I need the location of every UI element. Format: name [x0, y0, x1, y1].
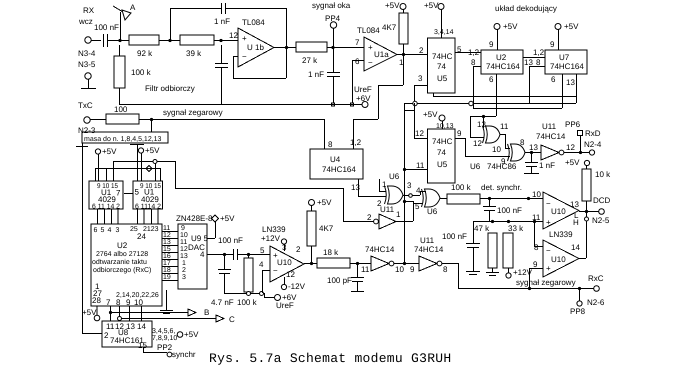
svg-text:18 k: 18 k — [323, 248, 339, 257]
svg-text:U10: U10 — [277, 258, 292, 267]
svg-text:RxD: RxD — [585, 129, 601, 138]
capacitor 100 nF between inputs — [483, 199, 522, 221]
wire RX to C1 — [91, 40, 101, 42]
svg-text:3: 3 — [116, 227, 120, 234]
svg-text:3: 3 — [407, 181, 412, 190]
power +5V to U5 pins 10,13 — [423, 110, 454, 130]
wire EPROM outputs to DAC — [162, 225, 178, 281]
wire U5 pin5 to U2 — [455, 45, 481, 54]
svg-text:−: − — [242, 52, 247, 61]
wire feedback net y97 — [433, 93, 576, 97]
svg-text:12: 12 — [180, 246, 188, 253]
inverter U11a pins 2,1 — [367, 205, 401, 229]
svg-text:U1a: U1a — [374, 50, 389, 59]
xor gate U6c pins 13,12 out 11 — [473, 120, 509, 148]
svg-text:10: 10 — [532, 190, 541, 199]
svg-text:5: 5 — [260, 246, 265, 255]
svg-text:12: 12 — [163, 232, 171, 239]
svg-text:U2: U2 — [496, 53, 507, 62]
capacitor 100 nF input — [94, 23, 119, 47]
svg-text:sygnał oka: sygnał oka — [312, 1, 351, 10]
svg-text:100 k: 100 k — [237, 298, 258, 307]
wire bias rail to Uref — [224, 292, 274, 298]
svg-text:11: 11 — [106, 322, 115, 331]
resistor 4K7 pullup U1a — [382, 1, 408, 54]
svg-text:U6: U6 — [389, 172, 400, 181]
svg-text:4: 4 — [108, 227, 112, 234]
op-amp U1b TL084 — [229, 18, 274, 67]
wire node C arrow — [118, 315, 236, 324]
svg-text:H: H — [573, 218, 579, 227]
svg-text:100 nF: 100 nF — [218, 236, 243, 245]
svg-text:+5V: +5V — [503, 22, 518, 31]
svg-text:74HC164: 74HC164 — [486, 62, 520, 71]
svg-text:odtwarzanie taktu: odtwarzanie taktu — [92, 258, 147, 266]
svg-text:6 11 14 2: 6 11 14 2 — [92, 204, 120, 211]
resistor 33 k — [503, 224, 533, 278]
svg-text:+5V: +5V — [564, 22, 579, 31]
resistor 92 k — [129, 35, 159, 58]
svg-text:PP8: PP8 — [570, 307, 586, 316]
test point PP2 synchr — [143, 343, 196, 359]
svg-text:12: 12 — [415, 129, 424, 138]
wire C1 to R 92k — [108, 39, 129, 42]
svg-text:13: 13 — [566, 78, 575, 87]
svg-text:U9 5: U9 5 — [191, 234, 208, 243]
svg-text:1,2: 1,2 — [468, 48, 480, 57]
svg-text:Filtr odbiorczy: Filtr odbiorczy — [145, 84, 195, 93]
wire feedback loop U1b — [170, 8, 288, 79]
xor gate U6b pins 4,5 out 6 — [415, 186, 440, 216]
inverter U11c pins 9,8 — [410, 236, 448, 274]
resistor 39 k — [180, 35, 214, 58]
svg-text:N2-5: N2-5 — [592, 216, 610, 225]
wire wired-or to U10c output — [579, 212, 589, 259]
wire EPROM low outputs to U8 — [111, 306, 142, 321]
svg-text:18: 18 — [163, 267, 171, 274]
svg-text:47 k: 47 k — [474, 224, 490, 233]
svg-text:13: 13 — [477, 120, 486, 129]
svg-text:7,8,9,10: 7,8,9,10 — [152, 335, 177, 342]
svg-text:6: 6 — [355, 57, 360, 66]
wire recovered clock vertical net — [403, 103, 406, 265]
svg-text:−: − — [546, 246, 551, 255]
wire node B arrow — [109, 308, 209, 317]
svg-text:7: 7 — [106, 298, 111, 307]
svg-text:7: 7 — [116, 189, 121, 198]
ground stub counter U3 right — [130, 145, 144, 182]
svg-text:92 k: 92 k — [137, 49, 153, 58]
wire to xor U6c pin 12 — [470, 115, 496, 138]
svg-text:N2-3: N2-3 — [78, 126, 96, 135]
test point PP4 sygnal oka — [312, 1, 351, 47]
svg-text:3,4,5,6,: 3,4,5,6, — [152, 328, 175, 335]
svg-text:U4: U4 — [330, 155, 341, 164]
svg-text:1 nF: 1 nF — [214, 17, 230, 26]
capacitor 4.7 nF — [211, 255, 234, 307]
capacitor 100 nF to ground — [442, 221, 480, 275]
comparator U10c LM339 clock — [533, 240, 580, 277]
svg-text:sygnał zegarowy: sygnał zegarowy — [516, 278, 576, 287]
pin 8 U7 clock — [529, 58, 545, 103]
svg-text:+: + — [546, 264, 551, 273]
svg-text:74HC: 74HC — [432, 137, 453, 146]
svg-text:74HC14: 74HC14 — [365, 245, 395, 254]
capacitor 1 nF at PP4 node — [308, 48, 340, 103]
svg-text:11: 11 — [416, 161, 425, 170]
svg-text:4.7 nF: 4.7 nF — [211, 298, 234, 307]
svg-text:PP6: PP6 — [565, 120, 581, 129]
svg-text:100 k: 100 k — [131, 68, 152, 77]
svg-text:1: 1 — [382, 180, 387, 189]
svg-text:-12V: -12V — [288, 282, 306, 291]
svg-text:6 1114 2: 6 1114 2 — [135, 204, 161, 211]
svg-text:2: 2 — [419, 46, 424, 55]
svg-text:1 nF: 1 nF — [539, 161, 555, 170]
test point PP6 RxD — [565, 120, 602, 152]
wire 100k to U10b minus — [480, 190, 543, 200]
resistor 100 k bias — [237, 255, 258, 307]
svg-text:U10: U10 — [551, 207, 566, 216]
svg-text:wcz: wcz — [78, 17, 93, 26]
power +5V to U5 pins 3,4,14 — [424, 1, 454, 38]
wire 18k to inverter U11b — [350, 262, 371, 265]
svg-text:9: 9 — [501, 157, 506, 166]
svg-text:N2-6: N2-6 — [587, 298, 605, 307]
svg-text:+5V: +5V — [424, 1, 439, 10]
wire U10c minus input — [534, 221, 543, 247]
svg-text:13: 13 — [529, 143, 538, 152]
svg-text:8: 8 — [328, 140, 333, 149]
comparator U10a LM339 — [259, 225, 304, 282]
svg-text:U 1b: U 1b — [247, 43, 264, 52]
svg-text:8: 8 — [471, 58, 476, 67]
svg-text:UreF: UreF — [276, 301, 294, 310]
svg-text:U2: U2 — [117, 241, 128, 250]
svg-text:UreF: UreF — [354, 85, 372, 94]
ground rail of filter to Uref — [119, 103, 362, 106]
svg-text:9: 9 — [457, 129, 462, 138]
svg-text:U11: U11 — [380, 205, 395, 214]
svg-text:+6V: +6V — [356, 94, 371, 103]
node RX wcz input — [78, 6, 95, 43]
svg-text:1: 1 — [182, 260, 186, 267]
svg-text:3,4,14: 3,4,14 — [434, 29, 454, 36]
svg-text:TL084: TL084 — [242, 18, 265, 27]
probe point A — [113, 3, 136, 40]
svg-text:masa do n. 1,8,4,5,12,13: masa do n. 1,8,4,5,12,13 — [84, 135, 162, 143]
svg-text:10: 10 — [180, 232, 188, 239]
svg-text:+5V: +5V — [184, 330, 199, 339]
wire U11b to U11c — [394, 263, 419, 265]
wire U1 pin7 to U3 pin5 — [124, 193, 133, 195]
shift register U7 74HC164 — [545, 50, 587, 74]
svg-text:det. synchr.: det. synchr. — [481, 183, 522, 192]
svg-text:4K7: 4K7 — [382, 23, 397, 32]
wire U5 pin11 clock — [404, 161, 427, 170]
capacitor 100 pF — [327, 264, 364, 292]
svg-text:2: 2 — [104, 331, 109, 340]
svg-text:74HC164: 74HC164 — [550, 62, 584, 71]
wire to xor U6c pin 13 — [483, 116, 485, 128]
resistor 18 k — [317, 248, 350, 268]
svg-text:12: 12 — [566, 143, 575, 152]
svg-text:12: 12 — [229, 31, 238, 40]
svg-text:10: 10 — [492, 145, 501, 154]
wire counters to EPROM address pins — [98, 209, 159, 224]
power +5V to U8 pins 3,4,5,6,7,8,9,10 — [152, 328, 199, 342]
wire U5 pin9 to U6d pin 9 — [455, 129, 510, 157]
svg-text:Rys. 5.7a Schemat modemu G3RUH: Rys. 5.7a Schemat modemu G3RUH — [209, 351, 451, 366]
svg-text:13: 13 — [180, 253, 188, 260]
power +5V near U8 — [82, 306, 100, 321]
svg-text:6: 6 — [551, 75, 556, 84]
inverter U11b pins 11,10 — [361, 245, 404, 274]
svg-text:+12V: +12V — [261, 234, 281, 243]
svg-text:9: 9 — [181, 225, 185, 232]
svg-text:odbiorczego (RxC): odbiorczego (RxC) — [93, 266, 151, 274]
svg-text:14: 14 — [571, 243, 580, 252]
svg-text:8: 8 — [536, 58, 541, 67]
svg-text:100: 100 — [114, 105, 128, 114]
svg-text:33 k: 33 k — [508, 224, 524, 233]
svg-text:74: 74 — [437, 148, 446, 157]
wire U10a minus to bias — [263, 270, 271, 293]
svg-text:74HC164: 74HC164 — [322, 165, 356, 174]
wire U6a out to U6b pin4 — [403, 191, 426, 197]
wire U10b output to N2-5 DCD — [573, 196, 611, 227]
resistor 4K7 pullup comparator — [307, 198, 334, 263]
resistor 100 on TxC — [90, 105, 139, 124]
svg-text:13: 13 — [524, 58, 533, 67]
wire threshold net plus input — [473, 213, 543, 223]
svg-text:9: 9 — [410, 265, 415, 274]
capacitor 1 nF feedback U1b — [214, 3, 230, 26]
svg-text:1,2: 1,2 — [533, 48, 545, 57]
svg-text:+5V: +5V — [385, 1, 400, 10]
pin 6 U2 — [489, 74, 497, 116]
wire U6b out to 100k — [440, 198, 447, 200]
svg-text:7: 7 — [355, 38, 360, 47]
wire counter net to long line x175 — [175, 161, 177, 188]
connector Uref +6V — [275, 293, 298, 310]
svg-text:15: 15 — [163, 246, 171, 253]
svg-text:N2-4: N2-4 — [584, 140, 602, 149]
svg-text:+5V: +5V — [565, 158, 580, 167]
svg-text:8: 8 — [116, 298, 121, 307]
svg-text:5: 5 — [135, 188, 140, 197]
ground masa line to U8 pin 2 — [76, 143, 102, 334]
power +5V to U7 pin 9 — [550, 22, 579, 50]
wire 27k to U1a — [327, 46, 364, 49]
svg-text:+: + — [546, 218, 551, 227]
svg-text:19: 19 — [163, 274, 171, 281]
svg-text:−: − — [273, 266, 278, 275]
svg-text:U6: U6 — [427, 207, 438, 216]
svg-text:27 k: 27 k — [302, 56, 318, 65]
svg-text:9: 9 — [126, 298, 131, 307]
note masa do n. 1,8,4,5,12,13 — [82, 132, 168, 143]
svg-text:ZN428E-8: ZN428E-8 — [176, 214, 213, 223]
svg-text:16: 16 — [163, 253, 171, 260]
power -12V to U10 pin12 — [281, 277, 305, 291]
EPROM U2 2764 — [91, 224, 162, 307]
comparator U10b LM339 DCD — [543, 192, 579, 239]
svg-text:+5V: +5V — [220, 214, 235, 223]
resistor 100 k to ground rail — [114, 45, 152, 104]
power +12V to U10 pin3 — [261, 234, 287, 251]
wire U2 pin13 to U7 — [523, 58, 545, 68]
svg-text:14: 14 — [137, 322, 146, 331]
wire U1b output to 27k — [274, 47, 296, 49]
svg-text:układ dekodujący: układ dekodujący — [495, 4, 557, 13]
svg-text:LN339: LN339 — [262, 225, 286, 234]
svg-text:11: 11 — [532, 213, 541, 222]
svg-text:100 pF: 100 pF — [327, 276, 352, 285]
svg-text:74: 74 — [437, 62, 446, 71]
wire xor U6a pin1 input — [379, 179, 386, 192]
capacitor 100 nF coupling — [218, 236, 243, 260]
ground below N3-5 — [81, 79, 96, 89]
svg-text:100 k: 100 k — [451, 183, 472, 192]
svg-text:+5V: +5V — [145, 146, 160, 155]
wire preset net y168 — [95, 166, 161, 181]
wire U1a output to U5 pin 2 — [397, 46, 428, 56]
wire U6d out to inverter U11 pin13 — [525, 151, 541, 154]
svg-text:1,2: 1,2 — [350, 138, 362, 147]
svg-text:6: 6 — [489, 75, 494, 84]
svg-text:U5: U5 — [437, 160, 448, 169]
svg-text:LN339: LN339 — [549, 230, 573, 239]
svg-text:RxC: RxC — [588, 274, 604, 283]
svg-text:100 nF: 100 nF — [442, 232, 467, 241]
flip-flop U5 74HC74 first half — [418, 38, 455, 93]
svg-text:U10: U10 — [551, 255, 566, 264]
svg-text:28: 28 — [92, 296, 101, 305]
svg-text:sygnał zegarowy: sygnał zegarowy — [163, 108, 223, 117]
wire R92k to R39k — [159, 8, 180, 42]
wire U11a out to U6b pin5 — [396, 200, 423, 222]
svg-text:2764 albo 27128: 2764 albo 27128 — [96, 250, 148, 258]
wire TxC clock to U4 pin 8 — [139, 118, 325, 149]
svg-text:3: 3 — [418, 74, 423, 83]
svg-text:39 k: 39 k — [186, 49, 202, 58]
svg-text:12: 12 — [473, 139, 482, 148]
svg-text:6: 6 — [94, 227, 98, 234]
wire U5 pin3 clock input — [414, 85, 427, 103]
svg-text:11: 11 — [180, 239, 187, 246]
power +5V counter U1 left — [95, 147, 117, 181]
counter U8 74HC161 — [102, 321, 152, 350]
svg-text:13: 13 — [351, 183, 360, 192]
svg-text:4: 4 — [259, 260, 264, 269]
svg-text:11: 11 — [500, 122, 509, 131]
shift register U2 74HC164 — [481, 50, 523, 74]
connector Uref +6V on rail — [354, 85, 372, 108]
svg-text:TL084: TL084 — [357, 26, 380, 35]
capacitor 1nF shunt after 39k — [215, 45, 228, 104]
wire RxC rail sygnal zegarowy — [458, 274, 605, 307]
svg-text:13: 13 — [570, 200, 579, 209]
wire U10a output node — [304, 262, 317, 265]
svg-text:4K7: 4K7 — [319, 224, 334, 233]
svg-text:+5V: +5V — [102, 147, 117, 156]
svg-text:15: 15 — [138, 341, 147, 350]
svg-text:A: A — [130, 3, 136, 12]
svg-text:RX: RX — [83, 6, 95, 15]
wire 39k to op-amp U1b — [214, 39, 238, 42]
wire preset net y161 — [107, 160, 176, 182]
svg-text:9: 9 — [533, 260, 538, 269]
svg-text:2: 2 — [182, 267, 186, 274]
svg-text:N3-4: N3-4 — [78, 49, 96, 58]
svg-text:13: 13 — [163, 239, 171, 246]
xor gate U6a pins 1,2 out 3 — [377, 172, 412, 208]
pin 8 U2 clock — [471, 58, 481, 108]
svg-text:1 nF: 1 nF — [308, 70, 324, 79]
svg-text:5: 5 — [101, 227, 105, 234]
svg-text:+: + — [242, 34, 247, 43]
wire U5 pin12 input — [404, 103, 427, 139]
counter U1 4029 — [89, 181, 123, 211]
svg-text:100 nF: 100 nF — [94, 23, 119, 32]
svg-text:DCD: DCD — [593, 196, 611, 205]
wire cap to comparator plus — [237, 253, 270, 256]
svg-text:1: 1 — [396, 210, 401, 219]
wire clock distribution net y103 — [404, 101, 576, 108]
svg-text:9: 9 — [550, 40, 555, 49]
svg-text:12: 12 — [286, 270, 295, 279]
wire U4 pins 1,2 input — [353, 55, 404, 149]
svg-text:B: B — [204, 308, 209, 317]
power +5V diamond DAC — [207, 214, 235, 239]
svg-text:U11: U11 — [420, 236, 435, 245]
DAC U9 ZN428E-8 — [176, 214, 213, 289]
svg-text:4: 4 — [200, 250, 205, 259]
pin 13 U7 — [566, 74, 577, 103]
label U6 74HC86 — [470, 162, 517, 171]
svg-text:synchr: synchr — [172, 350, 196, 359]
capacitor 1 nF at U6d output — [524, 153, 555, 174]
svg-text:4: 4 — [416, 186, 421, 195]
wire U1a minus input to rail — [352, 60, 364, 103]
svg-text:10: 10 — [134, 298, 143, 307]
wire long line from DAC section to inverter U11a — [175, 188, 374, 222]
power +5V counter U3 right — [138, 146, 160, 181]
svg-text:74HC: 74HC — [432, 52, 453, 61]
svg-text:+5V: +5V — [317, 198, 332, 207]
svg-text:2: 2 — [367, 213, 372, 222]
inverter U11f 74HC14 to RxD — [529, 122, 575, 160]
wire U11c out to RxC rail — [442, 263, 459, 288]
wire U4 pin13 to xor U6a — [351, 179, 386, 197]
svg-text:11: 11 — [361, 265, 370, 274]
svg-text:3: 3 — [182, 274, 186, 281]
svg-text:+5V: +5V — [423, 110, 438, 119]
resistor 47 k — [474, 224, 499, 276]
svg-text:U11: U11 — [542, 122, 557, 131]
shift register U4 74HC164 — [310, 138, 363, 179]
svg-text:U7: U7 — [559, 53, 570, 62]
wire DAC pin4 output — [207, 253, 233, 256]
svg-text:U5: U5 — [437, 74, 448, 83]
ground EPROM data pins — [160, 290, 173, 314]
resistor 10 k pullup DCD — [565, 158, 611, 211]
svg-text:N3-5: N3-5 — [78, 60, 96, 69]
xor gate U6d pins 10,9 out 8 — [492, 138, 525, 166]
resistor 100 k det synchr — [447, 183, 522, 204]
svg-text:PP2: PP2 — [157, 343, 173, 352]
